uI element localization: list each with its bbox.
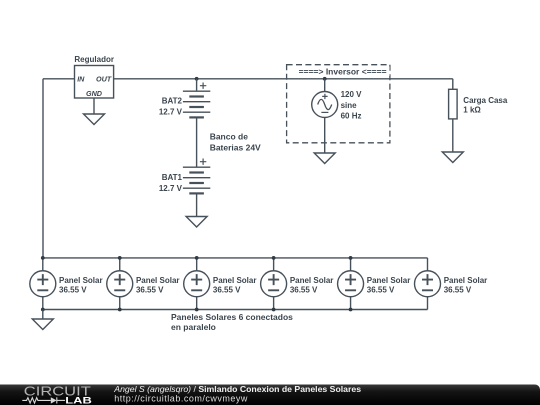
svg-text:OUT: OUT [96, 74, 112, 83]
svg-text:Banco de: Banco de [210, 132, 249, 142]
svg-text:Angel S (angelsqro) / Simlando: Angel S (angelsqro) / Simlando Conexion … [113, 384, 361, 394]
svg-text:Panel Solar: Panel Solar [136, 276, 180, 285]
svg-text:1 kΩ: 1 kΩ [463, 106, 481, 115]
CircuitLab logo: resistor-diode trace [22, 397, 65, 403]
inverter enclosure (dashed box) [287, 65, 390, 143]
svg-text:12.7 V: 12.7 V [159, 184, 183, 193]
dc source PS4 (Panel Solar 36.55 V) [261, 271, 287, 297]
svg-text:Regulador: Regulador [74, 55, 114, 64]
dc source PS1 (Panel Solar 36.55 V) [30, 271, 56, 297]
junction: top bus / panel 1 [41, 256, 45, 260]
ground (panel bus) [32, 319, 53, 330]
resistor R1 (Carga Casa 1 kΩ) [449, 89, 508, 119]
wire: bottom bus to ground [42, 310, 44, 320]
dc source PS6 (Panel Solar 36.55 V) [415, 271, 441, 297]
wire: bus stubs panel 6 [427, 258, 429, 310]
junction: top bus / panel 4 [272, 256, 276, 260]
svg-text:sine: sine [341, 101, 358, 110]
battery BAT2 [183, 83, 210, 118]
junction: top bus / panel 3 [195, 256, 199, 260]
wire: rail corner down to R1 [452, 79, 454, 90]
junction: bottom bus / panel 5 [349, 308, 353, 312]
svg-text:Panel Solar: Panel Solar [59, 276, 103, 285]
svg-text:BAT1: BAT1 [162, 173, 183, 182]
svg-text:36.55 V: 36.55 V [444, 286, 472, 295]
svg-text:60 Hz: 60 Hz [341, 112, 362, 121]
wire: BAT2 to BAT1 [196, 117, 198, 167]
wire: bus stubs panel 5 [350, 258, 352, 310]
wire: bus stubs panel 4 [273, 258, 275, 310]
svg-text:http://circuitlab.com/cwvmeyw: http://circuitlab.com/cwvmeyw [114, 394, 248, 404]
junction: bottom bus / panel 2 [118, 308, 122, 312]
svg-text:12.7 V: 12.7 V [159, 108, 183, 117]
svg-text:36.55 V: 36.55 V [59, 286, 87, 295]
battery BAT1 [183, 159, 210, 194]
wire: top rail from regulator OUT to load corner [114, 78, 453, 80]
junction: top bus / panel 2 [118, 256, 122, 260]
svg-text:====> Inversor <====: ====> Inversor <==== [299, 66, 387, 76]
wire: bus stubs panel 2 [119, 258, 121, 310]
wire: rail to V1 [324, 79, 326, 92]
ground (battery bank) [186, 217, 207, 228]
svg-text:Panel Solar: Panel Solar [213, 276, 257, 285]
svg-text:Panel Solar: Panel Solar [444, 276, 488, 285]
junction: bottom bus / panel 3 [195, 308, 199, 312]
svg-text:Carga Casa: Carga Casa [463, 96, 508, 105]
svg-text:BAT2: BAT2 [162, 96, 183, 105]
wire: BAT1 to ground [196, 193, 198, 216]
wire: R1 to ground [452, 119, 454, 152]
svg-text:36.55 V: 36.55 V [290, 286, 318, 295]
svg-text:Baterias 24V: Baterias 24V [210, 142, 261, 152]
ground (inverter) [314, 153, 335, 164]
svg-text:36.55 V: 36.55 V [213, 286, 241, 295]
ac source V1 (120 V sine 60 Hz) [312, 92, 338, 118]
wire: regulator IN to left rail [43, 78, 75, 80]
svg-text:LAB: LAB [65, 395, 92, 405]
ground (load) [442, 152, 463, 163]
svg-text:36.55 V: 36.55 V [136, 286, 164, 295]
svg-text:IN: IN [77, 74, 85, 83]
op-amp/regulator U1 (Regulador) [74, 55, 114, 98]
dc source PS5 (Panel Solar 36.55 V) [338, 271, 364, 297]
svg-text:GND: GND [86, 89, 102, 98]
svg-text:36.55 V: 36.55 V [367, 286, 395, 295]
wire: rail to BAT2 [196, 79, 198, 91]
wire: bus stubs panel 3 [196, 258, 198, 310]
wire: regulator GND stub [93, 98, 95, 114]
wire: bus stubs panel 1 [42, 258, 44, 310]
svg-text:Panel Solar: Panel Solar [367, 276, 411, 285]
junction: top bus / panel 5 [349, 256, 353, 260]
dc source PS3 (Panel Solar 36.55 V) [184, 271, 210, 297]
svg-text:120 V: 120 V [341, 90, 363, 99]
junction: battery tap on top rail [195, 77, 199, 81]
svg-text:Paneles Solares 6 conectados: Paneles Solares 6 conectados [171, 312, 293, 322]
svg-text:en paralelo: en paralelo [171, 322, 216, 332]
junction: inverter tap on top rail [323, 77, 327, 81]
wire: left rail vertical down to panel bus [42, 79, 44, 258]
svg-text:Panel Solar: Panel Solar [290, 276, 334, 285]
wire: bottom parallel bus [43, 309, 428, 311]
junction: bottom bus / panel 1 [41, 308, 45, 312]
dc source PS2 (Panel Solar 36.55 V) [107, 271, 133, 297]
wire: V1 to ground [324, 118, 326, 154]
ground (regulator) [84, 114, 105, 125]
wire: top parallel bus [43, 257, 428, 259]
junction: bottom bus / panel 4 [272, 308, 276, 312]
